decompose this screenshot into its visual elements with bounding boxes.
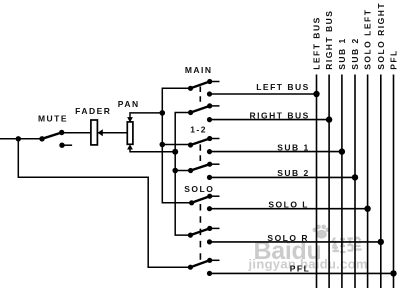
- svg-text:PAN: PAN: [118, 99, 140, 109]
- svg-text:SOLO RIGHT: SOLO RIGHT: [376, 2, 386, 70]
- wire PFL horizontal: [210, 272, 394, 274]
- watermark paw icon: [313, 225, 330, 239]
- svg-text:PFL: PFL: [290, 264, 311, 274]
- svg-text:SOLO LEFT: SOLO LEFT: [363, 9, 373, 70]
- wire SUB 1 horizontal: [210, 151, 342, 153]
- svg-text:SOLO L: SOLO L: [268, 200, 309, 210]
- gang link 1-2 dashed: [199, 144, 201, 161]
- svg-text:SUB 2: SUB 2: [350, 37, 360, 70]
- switch MUTE off contact: [59, 143, 64, 148]
- switch S7 pfl: [188, 258, 220, 276]
- wire input line: [0, 138, 42, 140]
- wire fader to pan: [97, 132, 127, 134]
- bus vertical RIGHT BUS: [328, 75, 330, 289]
- wire SOLO L horizontal: [210, 208, 368, 210]
- wire left channel distribution: [162, 88, 191, 203]
- node PFL terminal: [390, 270, 396, 276]
- pan body: [127, 122, 133, 144]
- switch MUTE arm contact: [59, 130, 64, 135]
- node input junction: [16, 136, 21, 141]
- svg-text:LEFT BUS: LEFT BUS: [256, 82, 310, 92]
- wire SOLO R horizontal: [210, 241, 381, 243]
- watermark chinese characters: [332, 237, 362, 252]
- gang link SOLO dashed: [199, 204, 201, 260]
- node SOLO L terminal: [364, 206, 370, 212]
- svg-text:SOLO: SOLO: [184, 184, 214, 194]
- svg-text:RIGHT BUS: RIGHT BUS: [250, 111, 310, 121]
- wire PFL pre-fader tap: [18, 139, 190, 267]
- bus vertical SUB 2: [354, 75, 356, 289]
- wire left channel to sub1 switch: [162, 144, 190, 146]
- svg-text:SOLO R: SOLO R: [267, 233, 309, 243]
- wire right channel to sub2 switch: [175, 170, 190, 172]
- switch S2 right bus: [188, 103, 220, 122]
- node SUB 2 terminal: [352, 174, 358, 180]
- wire right channel distribution: [175, 113, 190, 236]
- svg-text:SUB 1: SUB 1: [337, 37, 347, 70]
- wire MUTE off stub: [64, 144, 72, 146]
- switch S6 solo right: [188, 226, 220, 245]
- wire SUB 2 horizontal: [210, 176, 356, 178]
- node SUB 1 terminal: [339, 148, 345, 154]
- fader body: [91, 120, 98, 145]
- wire pan bottom output: [130, 149, 175, 152]
- bus vertical LEFT BUS: [316, 75, 318, 289]
- wire mute to fader: [62, 132, 91, 134]
- node left channel pan feed: [160, 110, 166, 116]
- svg-text:PFL: PFL: [389, 49, 399, 70]
- svg-text:MAIN: MAIN: [185, 65, 213, 75]
- gang link MAIN dashed: [199, 87, 201, 104]
- bus vertical SUB 1: [341, 75, 343, 289]
- svg-text:SUB 2: SUB 2: [277, 168, 310, 178]
- pan bottom wiper arrow: [127, 144, 133, 149]
- pan top wiper arrow: [127, 117, 133, 122]
- node LEFT BUS terminal: [313, 91, 319, 97]
- bus vertical PFL: [393, 75, 395, 289]
- node right channel pan feed: [172, 149, 178, 155]
- wire LEFT BUS horizontal: [210, 93, 317, 95]
- watermark baidu logo text: [254, 237, 322, 265]
- node RIGHT BUS terminal: [326, 116, 332, 122]
- switch S4 sub2: [188, 162, 220, 180]
- svg-text:SUB 1: SUB 1: [277, 143, 310, 153]
- node left channel sub1 branch: [160, 142, 166, 148]
- switch S3 sub1: [188, 136, 220, 154]
- fader wiper arrow: [98, 129, 103, 136]
- bus vertical SOLO RIGHT: [380, 75, 382, 289]
- node SOLO R terminal: [378, 239, 384, 245]
- switch S5 solo left: [189, 194, 220, 212]
- wire RIGHT BUS horizontal: [210, 119, 330, 121]
- svg-text:FADER: FADER: [75, 106, 111, 116]
- node right channel sub2 branch: [172, 168, 178, 174]
- switch S1 left bus: [188, 79, 220, 97]
- switch MUTE pole: [39, 136, 44, 141]
- svg-text:LEFT BUS: LEFT BUS: [312, 16, 322, 70]
- svg-text:1-2: 1-2: [190, 124, 207, 134]
- svg-text:RIGHT BUS: RIGHT BUS: [324, 10, 334, 70]
- wire pan top output: [130, 113, 162, 118]
- svg-text:MUTE: MUTE: [38, 114, 68, 124]
- switch MUTE arm: [42, 133, 62, 139]
- bus vertical SOLO LEFT: [367, 75, 369, 289]
- watermark url text: [248, 257, 368, 272]
